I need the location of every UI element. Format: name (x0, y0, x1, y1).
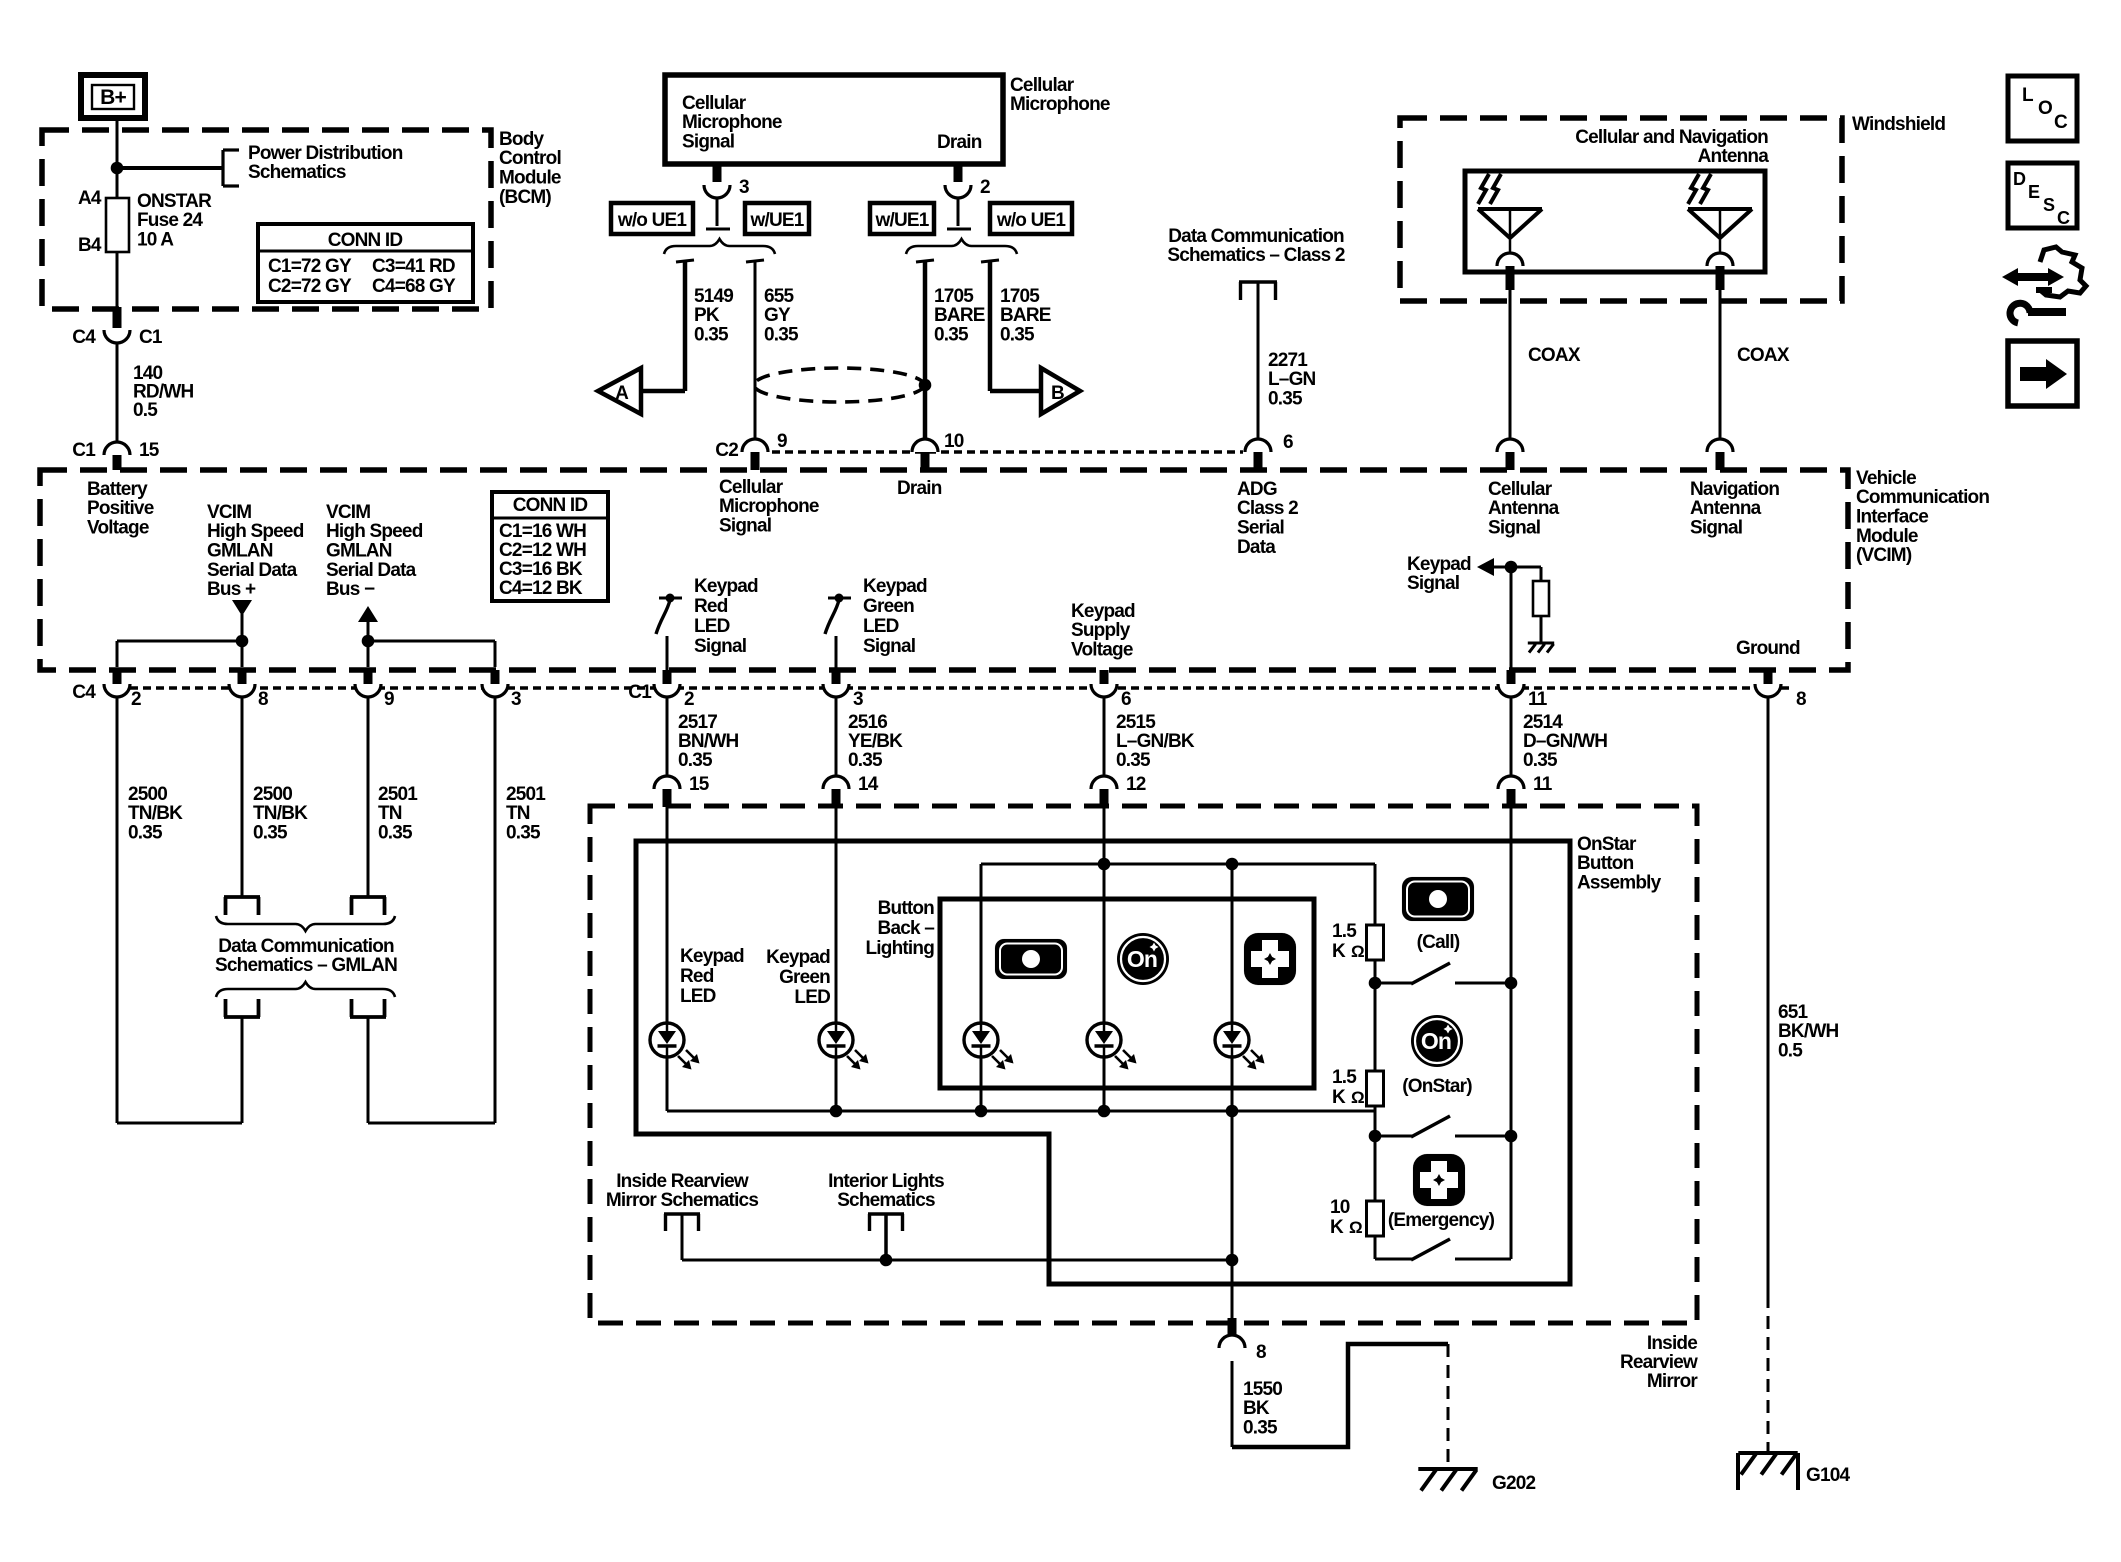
svg-text:0.35: 0.35 (694, 325, 729, 346)
icon box arrow (2008, 341, 2077, 406)
svg-text:Signal: Signal (694, 636, 746, 657)
svg-text:TN/BK: TN/BK (253, 803, 308, 824)
connector stub second row x1104 (1100, 789, 1109, 807)
svg-text:L–GN: L–GN (1268, 369, 1316, 390)
svg-text:(OnStar): (OnStar) (1402, 1076, 1472, 1097)
svg-text:TN: TN (378, 803, 402, 824)
wire resistor to ground (1540, 616, 1543, 642)
node emergency branch junction (1226, 1254, 1239, 1267)
svg-text:BK/WH: BK/WH (1778, 1021, 1838, 1042)
antenna navigation symbol (1688, 174, 1752, 253)
connector C-row stub x667 (663, 670, 672, 684)
wire 651 BK/WH (1767, 697, 1770, 1295)
label A4 (78, 188, 102, 209)
connector cup pin 3 x495 (482, 684, 508, 697)
wire 2514 D-GN/WH (1510, 697, 1513, 776)
svg-text:0.35: 0.35 (378, 823, 413, 844)
label Keypad Green LED (766, 947, 830, 1008)
svg-text:K: K (1332, 1087, 1346, 1108)
svg-text:Antenna: Antenna (1690, 498, 1762, 519)
svg-text:0.35: 0.35 (1523, 750, 1558, 771)
ground G202 (1418, 1469, 1477, 1491)
led driver symbol green (825, 594, 851, 635)
svg-text:OnStar: OnStar (1577, 834, 1637, 855)
svg-text:3: 3 (739, 177, 749, 198)
node keypad signal junction (1505, 561, 1518, 574)
svg-text:0.35: 0.35 (848, 750, 883, 771)
svg-text:0.5: 0.5 (1778, 1041, 1803, 1062)
svg-text:Lighting: Lighting (865, 938, 934, 959)
wire coax cellular (1509, 290, 1512, 439)
svg-text:2500: 2500 (128, 784, 167, 805)
svg-text:C3=16 BK: C3=16 BK (499, 559, 583, 580)
svg-text:1.5: 1.5 (1332, 1067, 1357, 1088)
node led return junction x1104 (1098, 1105, 1111, 1118)
svg-text:Supply: Supply (1071, 620, 1131, 641)
svg-text:VCIM: VCIM (326, 502, 370, 523)
svg-text:A4: A4 (78, 188, 102, 209)
svg-text:8: 8 (258, 689, 268, 710)
svg-text:D–GN/WH: D–GN/WH (1523, 731, 1607, 752)
connector C4/C1 (104, 330, 130, 343)
wire backlight left branch (980, 864, 983, 1111)
label Keypad Supply Voltage (1071, 601, 1135, 661)
node switch1 left (1369, 977, 1382, 990)
wire 1705 BARE left (916, 260, 934, 438)
label pin 12 second row (1126, 774, 1146, 795)
wire fuse to BCM edge (116, 252, 119, 309)
svg-text:14: 14 (858, 774, 879, 795)
icon onstar button (1411, 1015, 1463, 1067)
svg-text:Keypad: Keypad (766, 947, 830, 968)
svg-text:8: 8 (1256, 1342, 1266, 1363)
label 140 RD/WH 0.5 (133, 363, 193, 421)
component box button back-lighting (940, 899, 1314, 1088)
wire keypad signal down (1510, 567, 1513, 671)
module box Body Control Module (BCM) dashed (42, 130, 491, 309)
wire 1550 BK routing (1232, 1344, 1448, 1447)
label 2514 D-GN/WH 0.35 (1523, 712, 1607, 771)
wire 2501 TN pin9 (367, 697, 370, 896)
reference bracket GMLAN top right (350, 897, 386, 915)
connector C-row stub x117 (113, 670, 122, 684)
svg-text:0.35: 0.35 (1116, 750, 1151, 771)
label Navigation Antenna Signal (1690, 479, 1779, 539)
connector cup pin 9 x368 (355, 684, 381, 697)
off-page triangle B (1041, 368, 1080, 414)
svg-text:C1=16 WH: C1=16 WH (499, 521, 586, 542)
wire 2501 TN pin3 (494, 697, 497, 1123)
wire red led signal (666, 636, 669, 671)
label Ground (1736, 638, 1800, 659)
ground internal (1528, 643, 1554, 653)
svg-text:L: L (2022, 85, 2034, 106)
svg-text:2500: 2500 (253, 784, 292, 805)
label pin 8 x242 (258, 689, 268, 710)
connector C-row stub x1768 (1764, 670, 1773, 684)
icon emergency button (1413, 1154, 1465, 1206)
antenna cellular symbol (1478, 174, 1542, 253)
label ONSTAR Fuse 24 10 A (137, 191, 212, 251)
node led return junction x1232 (1226, 1105, 1239, 1118)
svg-text:8: 8 (1796, 689, 1806, 710)
svg-text:High Speed: High Speed (326, 521, 423, 542)
connector C-row stub x368 (364, 670, 373, 684)
connector cup pin 3 x836 (823, 684, 849, 697)
node Bus+ junction (236, 635, 249, 648)
label Cellular Microphone Signal (VCIM) (719, 477, 819, 537)
svg-text:Schematics: Schematics (248, 162, 346, 183)
svg-text:Voltage: Voltage (87, 518, 149, 539)
svg-text:Drain: Drain (897, 478, 942, 499)
label 651 BK/WH 0.5 (1778, 1002, 1838, 1062)
svg-text:11: 11 (1533, 774, 1553, 795)
wire Bus+ to pins (117, 641, 242, 667)
svg-text:C4: C4 (72, 682, 96, 703)
svg-text:15: 15 (139, 440, 160, 461)
svg-text:2271: 2271 (1268, 350, 1308, 371)
label Drain (VCIM) (897, 478, 942, 499)
svg-text:BARE: BARE (934, 305, 985, 326)
label Windshield (1852, 114, 1945, 135)
label pin 3 (739, 177, 749, 198)
switch emergency (1375, 1239, 1511, 1260)
svg-text:Voltage: Voltage (1071, 640, 1133, 661)
svg-text:Keypad: Keypad (1071, 601, 1135, 622)
wire 2516 YE/BK (835, 697, 838, 776)
svg-text:C4=12 BK: C4=12 BK (499, 578, 583, 599)
wire emergency backlight branch (1231, 864, 1234, 1318)
connector cup pin 6 x1104 (1091, 684, 1117, 697)
label BCM (499, 129, 561, 208)
svg-text:9: 9 (777, 431, 787, 452)
label C4 row (72, 682, 96, 703)
wire GMLAN return right (367, 1017, 370, 1123)
svg-text:B: B (1051, 383, 1064, 404)
svg-text:Signal: Signal (682, 132, 734, 153)
svg-text:6: 6 (1283, 432, 1293, 453)
connector 9 cup (742, 439, 768, 452)
wire GMLAN bottom join right (368, 1122, 495, 1125)
svg-text:B+: B+ (100, 86, 126, 109)
svg-text:B4: B4 (78, 235, 102, 256)
label pin 15 second row (689, 774, 710, 795)
wire 2517 BN/WH (666, 697, 669, 776)
wire interior lights ref down (884, 1215, 888, 1260)
svg-text:GMLAN: GMLAN (326, 541, 392, 562)
svg-text:651: 651 (1778, 1002, 1809, 1023)
led backlight call (964, 1023, 1014, 1070)
connector C-row stub x836 (832, 670, 841, 684)
svg-text:2515: 2515 (1116, 712, 1156, 733)
node switch2 right (1505, 1130, 1518, 1143)
fuse ONSTAR Fuse 24 (106, 198, 129, 252)
table CONN ID (BCM) (258, 224, 473, 302)
wire 651 to G104 dashed (1767, 1295, 1770, 1452)
label VCIM (1856, 468, 1989, 566)
connector stub second row x1511 (1507, 789, 1516, 807)
svg-text:Body: Body (499, 129, 545, 150)
label Keypad Green LED Signal (863, 576, 927, 657)
svg-text:C: C (2054, 112, 2068, 133)
svg-text:LED: LED (863, 616, 899, 637)
connector mic pin2 stub (954, 164, 963, 182)
wire 2500 TN/BK pin2 (116, 697, 119, 1123)
label ADG Class 2 Serial Data (1237, 479, 1298, 558)
svg-text:Signal: Signal (719, 516, 771, 537)
connector cup pin 15 second row x667 (654, 776, 680, 789)
reference bracket GMLAN top left (224, 897, 260, 915)
icon double arrow with hand (2002, 247, 2086, 297)
label C4 (72, 327, 96, 348)
svg-text:CONN ID: CONN ID (328, 230, 403, 251)
svg-text:Class 2: Class 2 (1237, 498, 1298, 519)
svg-text:On: On (1421, 1028, 1451, 1054)
svg-text:Inside Rearview: Inside Rearview (616, 1171, 749, 1192)
svg-text:Keypad: Keypad (863, 576, 927, 597)
connector C1 pin 15 cup (104, 442, 130, 455)
icon wrench (2010, 303, 2066, 323)
svg-text:GY: GY (764, 305, 791, 326)
resistor 10K emergency (1367, 1201, 1384, 1236)
node junction B+ tap (111, 162, 124, 175)
wire supply distribution (981, 863, 1375, 866)
svg-text:w/UE1: w/UE1 (749, 210, 804, 231)
label 2517 BN/WH 0.35 (678, 712, 738, 771)
icon call backlight (995, 939, 1067, 979)
connector coax cellular stub (1506, 452, 1515, 470)
svg-text:COAX: COAX (1528, 345, 1581, 366)
label Drain (box) (937, 132, 982, 153)
connector C-row stub x1511 (1507, 670, 1516, 684)
label 2515 L-GN/BK 0.35 (1116, 712, 1195, 771)
svg-text:Vehicle: Vehicle (1856, 468, 1916, 489)
wire to G202 dashed (1447, 1344, 1450, 1468)
svg-text:Antenna: Antenna (1698, 146, 1770, 167)
svg-text:LED: LED (680, 986, 716, 1007)
svg-text:0.35: 0.35 (253, 823, 288, 844)
reference bracket inside rearview mirror (664, 1214, 700, 1231)
svg-text:Signal: Signal (1690, 518, 1742, 539)
svg-text:1.5: 1.5 (1332, 921, 1357, 942)
svg-text:Cellular and Navigation: Cellular and Navigation (1575, 127, 1768, 148)
svg-text:1705: 1705 (1000, 286, 1040, 307)
svg-text:Microphone: Microphone (719, 496, 819, 517)
connector C-row stub x495 (491, 670, 500, 684)
connector 6 stub (1254, 452, 1263, 470)
wire to internal resistor (1540, 567, 1543, 581)
node supply junction 1232 (1226, 858, 1239, 871)
svg-text:2517: 2517 (678, 712, 717, 733)
svg-text:BARE: BARE (1000, 305, 1051, 326)
svg-text:Data Communication: Data Communication (218, 936, 394, 957)
svg-text:w/UE1: w/UE1 (874, 210, 929, 231)
wire 1550 BK (1231, 1361, 1234, 1447)
connector coax navigation cup (1707, 439, 1733, 452)
ground G104 (1738, 1453, 1798, 1490)
svg-text:Interior Lights: Interior Lights (828, 1171, 944, 1192)
svg-text:BN/WH: BN/WH (678, 731, 738, 752)
connector 10 cup (912, 439, 938, 452)
svg-text:Microphone: Microphone (682, 112, 782, 133)
svg-text:Ground: Ground (1736, 638, 1800, 659)
resistor 1.5K call (1367, 925, 1384, 960)
svg-text:2501: 2501 (378, 784, 418, 805)
svg-text:Signal: Signal (1407, 573, 1459, 594)
svg-text:D: D (2013, 169, 2026, 189)
option box w/o UE1 (signal) (611, 203, 693, 234)
wire 655 GY (746, 260, 764, 438)
svg-text:0.35: 0.35 (506, 823, 541, 844)
svg-text:C1: C1 (139, 327, 163, 348)
label 15 (139, 440, 160, 461)
icon box LOC (2008, 76, 2077, 141)
label pin 10 (944, 431, 964, 452)
module box Windshield dashed (1400, 118, 1842, 301)
icon emergency backlight (1244, 933, 1296, 985)
connector cup pin 8 x242 (229, 684, 255, 697)
svg-text:Green: Green (779, 967, 830, 988)
svg-text:COAX: COAX (1737, 345, 1790, 366)
svg-text:Ω: Ω (1351, 942, 1364, 961)
svg-text:TN/BK: TN/BK (128, 803, 183, 824)
label VCIM GMLAN Bus + (207, 502, 304, 600)
component box Cellular Microphone (665, 75, 1003, 164)
svg-text:1550: 1550 (1243, 1379, 1282, 1400)
connector 10 stub (921, 452, 930, 470)
svg-text:C2=12 WH: C2=12 WH (499, 540, 586, 561)
svg-text:CONN ID: CONN ID (513, 495, 588, 516)
label VCIM GMLAN Bus - (326, 502, 423, 600)
svg-text:9: 9 (384, 689, 394, 710)
label COAX cellular (1528, 345, 1581, 366)
label C1 right (139, 327, 163, 348)
svg-text:C1: C1 (628, 682, 652, 703)
svg-text:K: K (1332, 941, 1346, 962)
label 2271 L-GN 0.35 (1268, 350, 1316, 410)
svg-text:Data: Data (1237, 537, 1276, 558)
svg-text:(Emergency): (Emergency) (1388, 1210, 1495, 1231)
power symbol B+ (81, 75, 145, 118)
wire 2515 L-GN/BK (1103, 697, 1106, 776)
svg-text:Cellular: Cellular (1010, 75, 1075, 96)
svg-text:Cellular: Cellular (719, 477, 784, 498)
svg-text:Red: Red (680, 966, 714, 987)
label Power Distribution Schematics (248, 143, 403, 183)
svg-text:Assembly: Assembly (1577, 873, 1662, 894)
wire Bus- to pins (368, 641, 495, 667)
label 5149 PK 0.35 (694, 286, 733, 346)
svg-text:G202: G202 (1492, 1473, 1536, 1494)
connector mic pin 2 (945, 185, 971, 198)
svg-text:Module: Module (499, 168, 561, 189)
svg-text:ADG: ADG (1237, 479, 1277, 500)
svg-text:3: 3 (511, 689, 521, 710)
connector stub pin8 bottom (1228, 1318, 1237, 1341)
svg-text:Cellular: Cellular (1488, 479, 1553, 500)
connector C4-C1 stub (113, 307, 122, 328)
keypad signal arrow (1477, 558, 1541, 576)
connector row C2 dashed line (772, 450, 1243, 453)
svg-text:2501: 2501 (506, 784, 546, 805)
label B4 (78, 235, 102, 256)
connector coax cellular cup (1497, 439, 1523, 452)
switch call (1375, 963, 1511, 984)
svg-text:(BCM): (BCM) (499, 187, 551, 208)
svg-text:Schematics – GMLAN: Schematics – GMLAN (215, 955, 397, 976)
module box OnStar Button Assembly dashed (590, 806, 1697, 1323)
svg-text:Windshield: Windshield (1852, 114, 1945, 135)
svg-text:TN: TN (506, 803, 530, 824)
antenna navigation feed stub (1716, 266, 1725, 290)
svg-text:Mirror Schematics: Mirror Schematics (606, 1190, 758, 1211)
component outline button assembly (636, 841, 1570, 1284)
wire to power distribution reference (117, 166, 222, 170)
svg-text:Keypad: Keypad (680, 946, 744, 967)
connector row C4/C1 dashed line (104, 686, 1790, 689)
svg-text:Inside: Inside (1647, 1333, 1697, 1354)
wire reference join (682, 1259, 1232, 1262)
label OnStar Button Assembly (1577, 834, 1662, 894)
svg-text:LED: LED (694, 616, 730, 637)
label Data Communication Schematics - GMLAN (215, 936, 397, 976)
svg-text:Mirror: Mirror (1647, 1371, 1699, 1392)
svg-text:On: On (1127, 946, 1157, 972)
brace GMLAN top (216, 916, 395, 931)
reference bracket GMLAN bottom right (350, 999, 386, 1017)
svg-text:Positive: Positive (87, 498, 154, 519)
brace mic drain options (906, 239, 1017, 254)
svg-text:(VCIM): (VCIM) (1856, 545, 1912, 566)
svg-text:GMLAN: GMLAN (207, 541, 273, 562)
svg-text:High Speed: High Speed (207, 521, 304, 542)
svg-text:Communication: Communication (1856, 487, 1989, 508)
svg-text:3: 3 (853, 689, 863, 710)
svg-text:C3=41 RD: C3=41 RD (372, 256, 455, 277)
label C1 row (628, 682, 652, 703)
antenna cellular feed stub (1506, 266, 1515, 290)
svg-text:Keypad: Keypad (1407, 554, 1471, 575)
label 2516 YE/BK 0.35 (848, 712, 903, 771)
reference bracket Power Distribution (223, 150, 239, 186)
svg-text:C1=72 GY: C1=72 GY (268, 256, 352, 277)
label 1550 BK 0.35 (1243, 1379, 1282, 1439)
svg-text:w/o UE1: w/o UE1 (996, 210, 1067, 231)
label 2501 TN 0.35 a (378, 784, 418, 844)
svg-text:Button: Button (1577, 853, 1634, 874)
label pin 2 x667 (684, 689, 694, 710)
wire GMLAN bottom join left (117, 1122, 242, 1125)
svg-text:ONSTAR: ONSTAR (137, 191, 212, 212)
wire to triangle A (640, 389, 685, 394)
led driver symbol red (656, 594, 682, 635)
label Interior Lights Schematics (828, 1171, 944, 1211)
svg-text:Module: Module (1856, 526, 1918, 547)
node switch1 right (1505, 977, 1518, 990)
label pin 3 x836 (853, 689, 863, 710)
icon onstar backlight (1117, 933, 1169, 985)
node shield to drain (919, 379, 932, 392)
svg-text:10: 10 (944, 431, 964, 452)
svg-text:Ω: Ω (1351, 1088, 1364, 1107)
svg-text:2: 2 (684, 689, 694, 710)
svg-text:0.35: 0.35 (934, 325, 969, 346)
resistor 1.5K onstar (1367, 1071, 1384, 1106)
wire coax navigation (1719, 290, 1722, 439)
connector coax navigation stub (1716, 452, 1725, 470)
wire 140 RD/WH (116, 343, 119, 442)
wire keypad red led drop (666, 807, 669, 1111)
